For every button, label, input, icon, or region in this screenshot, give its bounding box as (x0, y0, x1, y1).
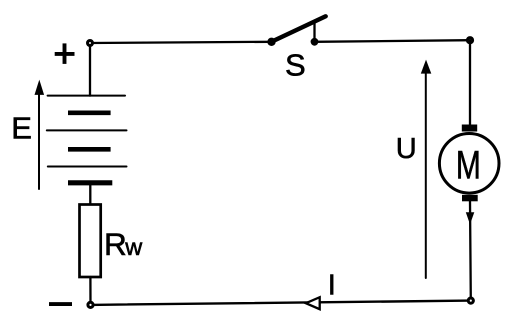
plus terminal label (55, 43, 75, 64)
svg-text:w: w (124, 234, 143, 260)
wire: resistor to bottom-left node (89, 277, 91, 305)
wire: bottom horizontal segment (91, 301, 471, 305)
svg-text:R: R (104, 226, 127, 262)
battery E (47, 96, 127, 183)
label Rw (104, 226, 143, 262)
minus terminal label (49, 302, 72, 306)
node: positive terminal junction (88, 41, 93, 46)
motor M (439, 125, 499, 202)
wire: motor to bottom-right node (469, 201, 472, 300)
svg-text:U: U (396, 133, 417, 165)
svg-text:E: E (11, 110, 32, 145)
svg-text:S: S (285, 47, 306, 82)
wire: battery to resistor (89, 183, 91, 205)
arrow: voltage U (421, 60, 432, 278)
svg-text:M: M (456, 144, 481, 188)
wire: switch to top-right node (315, 40, 471, 42)
wire: top-left node to switch pivot (90, 42, 272, 43)
arrow: EMF E direction (35, 80, 45, 189)
arrow: current into motor (solid, pointing down) (466, 212, 475, 224)
svg-text:I: I (328, 270, 336, 302)
node: negative terminal junction (88, 302, 93, 307)
resistor Rw (80, 205, 101, 278)
switch S (267, 16, 325, 46)
wire: top-right node down to motor (469, 40, 471, 126)
wire: top-left node down to battery (89, 43, 91, 96)
node: bottom-right junction (468, 298, 473, 303)
arrow: current I (open arrowhead on bottom wire) (306, 297, 320, 309)
node: top-right junction (467, 38, 472, 43)
